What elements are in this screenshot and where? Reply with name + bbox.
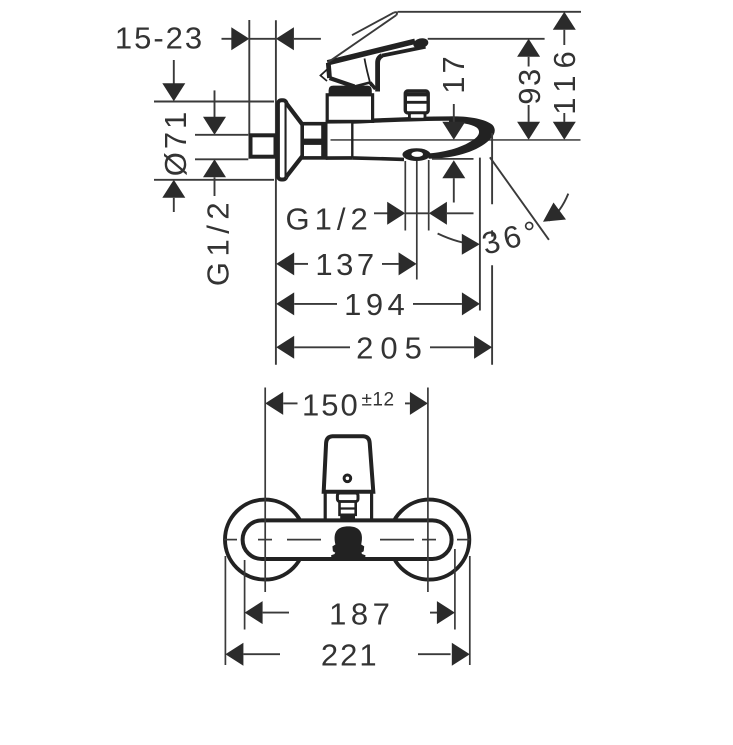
dimension G1/2 (left vertical) bbox=[195, 90, 248, 196]
S-union circle right bbox=[389, 500, 469, 580]
dimension 205 bbox=[276, 336, 492, 359]
svg-text:137: 137 bbox=[315, 247, 377, 282]
dimension 187 bbox=[244, 560, 246, 630]
center lines verticals bbox=[264, 388, 266, 593]
svg-text:205: 205 bbox=[356, 330, 429, 365]
spout top edge bbox=[352, 119, 455, 122]
handle base bbox=[327, 95, 372, 122]
dimension 36 degrees bbox=[438, 133, 569, 365]
dimension 116 bbox=[553, 12, 576, 140]
lever raised position (thin lines) bbox=[328, 12, 397, 62]
dimension G1/2 (aerator) arrows bbox=[374, 202, 474, 225]
svg-text:93: 93 bbox=[512, 67, 547, 104]
svg-text:17: 17 bbox=[436, 53, 471, 93]
dimension Ø71 bbox=[154, 60, 274, 212]
svg-text:15-23: 15-23 bbox=[115, 21, 204, 56]
reference line handle closed bbox=[428, 38, 545, 40]
dimension 194 bbox=[276, 292, 480, 315]
svg-text:±12: ±12 bbox=[362, 390, 395, 411]
svg-text:194: 194 bbox=[344, 287, 409, 322]
centerline of spout bbox=[331, 139, 581, 141]
wall connection stub G1/2 bbox=[251, 135, 276, 156]
svg-text:G1/2: G1/2 bbox=[286, 202, 373, 237]
dimension line 15-23 bbox=[222, 27, 321, 50]
handle skirt sides bbox=[324, 492, 327, 519]
handle pin dot bbox=[344, 475, 351, 482]
valve body bbox=[326, 120, 353, 124]
reference line top (handle raised) bbox=[398, 11, 582, 13]
extension line wall inner (15-23 left) bbox=[248, 20, 250, 134]
spout nose (filled) bbox=[429, 116, 495, 158]
svg-text:150: 150 bbox=[302, 388, 360, 423]
dimension 221 bbox=[224, 556, 226, 665]
escutcheon cone bbox=[287, 103, 303, 178]
center line dashes right circle bbox=[380, 539, 470, 541]
handle front view bbox=[324, 436, 374, 492]
diverter knob bbox=[405, 91, 428, 119]
lever hook (front, black) bbox=[331, 526, 365, 560]
lever hinge stack bbox=[337, 493, 358, 502]
S-union circle left bbox=[225, 500, 305, 580]
aerator bbox=[403, 148, 431, 161]
dimension 137 bbox=[276, 252, 416, 275]
aerator extension lines bbox=[405, 160, 428, 280]
svg-text:Ø71: Ø71 bbox=[158, 109, 193, 177]
escutcheon flange bbox=[278, 100, 287, 179]
svg-text:221: 221 bbox=[321, 638, 379, 673]
extension line wall plane bbox=[275, 20, 277, 365]
cartridge cap bbox=[329, 86, 372, 95]
svg-text:187: 187 bbox=[329, 597, 394, 632]
lever handle bbox=[321, 37, 430, 92]
spout underside bbox=[352, 158, 404, 160]
union nut bbox=[302, 124, 326, 158]
svg-text:116: 116 bbox=[547, 44, 582, 114]
body capsule bbox=[243, 520, 452, 559]
dimension 93 bbox=[517, 39, 540, 140]
svg-text:G1/2: G1/2 bbox=[201, 197, 236, 286]
center line dashes left circle bbox=[224, 539, 321, 541]
